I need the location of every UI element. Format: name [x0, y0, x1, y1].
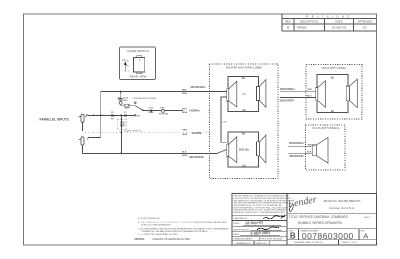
- lamp L1: [119, 101, 122, 104]
- svg-text:COMPRESSION DRIVER: COMPRESSION DRIVER: [132, 98, 157, 100]
- svg-text:SHEET: 1 OF 2: SHEET: 1 OF 2: [342, 242, 358, 244]
- svg-text:DATE: DATE: [234, 222, 240, 225]
- svg-text:8Ω: 8Ω: [331, 110, 334, 113]
- svg-text:LAMP: LAMP: [124, 106, 130, 109]
- svg-text:REV: REV: [285, 19, 291, 23]
- speaker SPK3: [316, 75, 358, 113]
- svg-text:Corona, CA U.S.A.: Corona, CA U.S.A.: [329, 206, 355, 210]
- svg-text:POLYSW: POLYSW: [159, 113, 168, 115]
- svg-text:PROD. MGR. RELEASE: PROD. MGR. RELEASE: [261, 238, 284, 241]
- switch SW1: [135, 102, 143, 116]
- connector ticks on tip bus: [112, 114, 126, 117]
- svg-text:WOOFER+: WOOFER+: [289, 141, 304, 145]
- wire woofer return into cabinet: [217, 150, 227, 154]
- svg-text:WOOFER-: WOOFER-: [280, 99, 295, 103]
- svg-text:TITLE: SERVICE DIAGRAM, COMBI: TITLE: SERVICE DIAGRAM, COMBINED: [289, 215, 349, 219]
- svg-text:RELEASE DATE: 02 SEP 03: RELEASE DATE: 02 SEP 03: [295, 241, 324, 244]
- svg-text:NOTES:: NOTES:: [135, 237, 146, 241]
- svg-text:PR983: PR983: [297, 26, 307, 30]
- svg-text:10: 10: [124, 122, 126, 124]
- horn switch body (rear view): [134, 56, 145, 74]
- svg-text:B: B: [290, 231, 296, 240]
- svg-text:WOOFER-: WOOFER-: [189, 155, 204, 159]
- svg-text:18GA: 18GA: [182, 111, 188, 114]
- svg-text:WHT: WHT: [308, 89, 313, 91]
- svg-text:8Ω: 8Ω: [242, 109, 245, 112]
- connector FC2 on horn line: [149, 109, 151, 112]
- svg-text:DATE: DATE: [336, 19, 343, 23]
- svg-text:BLK: BLK: [307, 96, 312, 98]
- input jack J2: [79, 137, 90, 145]
- svg-text:—: —: [138, 65, 140, 67]
- heavy divider band: [232, 226, 287, 227]
- svg-text:DB080.5014: DB080.5014: [256, 243, 268, 245]
- svg-text:WOOFER AND HORN COMBO: WOOFER AND HORN COMBO: [226, 66, 263, 70]
- svg-text:1. # = DENOTES 18GA. WIRE COLO: 1. # = DENOTES 18GA. WIRE COLORS.: [138, 233, 179, 236]
- svg-text:FOR 4 & 8 OHM OPERATION.: FOR 4 & 8 OHM OPERATION.: [141, 224, 171, 227]
- svg-text:WOOFER+: WOOFER+: [280, 87, 295, 91]
- svg-text:REAR VIEW: REAR VIEW: [130, 74, 147, 78]
- fender logo: [286, 194, 317, 210]
- revisions table: [282, 14, 377, 31]
- wire HORN+: [143, 109, 183, 111]
- svg-text:MUSICAL INSTRUMENTS: MUSICAL INSTRUMENTS: [324, 199, 361, 203]
- svg-text:8Ω: 8Ω: [331, 77, 334, 80]
- svg-text:WOOFER+: WOOFER+: [191, 85, 207, 89]
- svg-text:18GA: 18GA: [182, 133, 188, 136]
- svg-text:(SHT 1): (SHT 1): [364, 217, 371, 219]
- svg-text:2. ALL AMPLIFIERS USED WITH TH: 2. ALL AMPLIFIERS USED WITH THIS SPEAKER…: [138, 227, 229, 230]
- cabinet dashed box: woofer and horn combo: [210, 64, 279, 179]
- svg-text:LINK: LINK: [222, 121, 227, 123]
- svg-text:DRAWN/RELEASED: DRAWN/RELEASED: [234, 238, 253, 241]
- wire WOOFER-: [82, 123, 217, 154]
- svg-text:WOOFER-: WOOFER-: [290, 154, 305, 158]
- svg-text:15 & 25 WATT MODELS: 15 & 25 WATT MODELS: [312, 127, 340, 130]
- svg-text:02-SEP-03: 02-SEP-03: [332, 26, 347, 30]
- input jack J1: [79, 114, 88, 122]
- svg-text:R E V I S I O N S: R E V I S I O N S: [306, 14, 350, 18]
- horn switch detail box: [120, 47, 156, 80]
- notes block: [138, 217, 229, 236]
- polyswitch PS1: [161, 109, 164, 112]
- svg-text:RED: RED: [182, 90, 187, 92]
- svg-text:J.R.: J.R.: [362, 26, 367, 30]
- svg-text:1.6MH 8 OHMS 1%: 1.6MH 8 OHMS 1%: [124, 130, 142, 132]
- svg-text:4. IF NOT INSTALLED.: 4. IF NOT INSTALLED.: [138, 217, 161, 220]
- svg-text:REFER ALL QUESTIONS TO THE ENG: REFER ALL QUESTIONS TO THE ENGINEERING D…: [234, 211, 286, 214]
- svg-text:18GA: 18GA: [181, 92, 187, 95]
- svg-text:100V: 100V: [123, 100, 128, 102]
- svg-text:BLK: BLK: [182, 152, 187, 154]
- svg-text:DATE: DATE: [234, 233, 240, 236]
- svg-text:3. THE 1.6MH INDUCTOR IS USED: 3. THE 1.6MH INDUCTOR IS USED ONLY ON MO…: [138, 222, 227, 224]
- svg-text:8Ω: 8Ω: [242, 133, 245, 136]
- speaker SPK1: [227, 77, 266, 112]
- svg-text:RUMBLE SERIES SPEAKERS: RUMBLE SERIES SPEAKERS: [298, 221, 342, 225]
- svg-text:(UNLESS OTHERWISE NOTED): (UNLESS OTHERWISE NOTED): [152, 237, 190, 241]
- wire: jack tips bus: [88, 92, 135, 138]
- svg-text:HORN SWITCH: HORN SWITCH: [127, 49, 149, 53]
- svg-text:A: A: [363, 231, 368, 240]
- svg-text:0078603000: 0078603000: [302, 231, 354, 241]
- svg-text:BLK: BLK: [307, 152, 312, 154]
- capacitor C1 branch: [119, 92, 123, 102]
- svg-text:DESCRIPTION: DESCRIPTION: [300, 19, 318, 23]
- svg-text:WHT: WHT: [182, 109, 187, 111]
- svg-text:HORN-: HORN-: [192, 131, 202, 135]
- svg-text:DATABASE FILE: DATABASE FILE: [236, 242, 252, 245]
- svg-text:60/100 WATT MODEL: 60/100 WATT MODEL: [322, 67, 347, 70]
- title block frame: [232, 194, 377, 246]
- wire: vertical to woofer return: [120, 115, 122, 153]
- svg-text:SUB 16Ω: SUB 16Ω: [239, 149, 249, 152]
- svg-text:8Ω: 8Ω: [242, 77, 245, 80]
- svg-text:OPERATION. SEE AMPLIFIER SERVI: OPERATION. SEE AMPLIFIER SERVICE DIAGRAM…: [141, 230, 208, 233]
- svg-text:18GA: 18GA: [181, 154, 187, 157]
- svg-text:GRN: GRN: [182, 130, 187, 132]
- wire HORN- dotted: [82, 131, 209, 133]
- wire WOOFER+: [101, 91, 227, 93]
- node: jack junction dots: [93, 115, 94, 116]
- drawing border frame: [24, 14, 377, 245]
- svg-text:APPROVED BY: APPROVED BY: [234, 228, 250, 231]
- wire to switch: [121, 104, 134, 106]
- svg-text:HORN+: HORN+: [189, 108, 200, 112]
- svg-text:4Ω: 4Ω: [137, 115, 140, 118]
- lamp series resistor block: [124, 104, 129, 106]
- svg-text:8Ω: 8Ω: [242, 164, 245, 167]
- svg-text:PARALLEL INPUTS: PARALLEL INPUTS: [40, 117, 69, 121]
- svg-text:—: —: [138, 70, 140, 72]
- speaker SPK2: [227, 132, 266, 167]
- up arrow: [122, 59, 127, 72]
- wire link: [221, 97, 227, 142]
- wires into 60w cabinet: [280, 90, 316, 92]
- wires into 15/25 cabinet: [288, 145, 312, 147]
- svg-text:NO: NO: [126, 60, 129, 62]
- speaker SPK4: [312, 137, 328, 163]
- crossover dashed box: [118, 119, 127, 129]
- cabinet dashed box: 15/25 watt model: [306, 125, 346, 170]
- disclaimer text block: [234, 195, 292, 214]
- svg-text:CHECKED BY: CHECKED BY: [234, 218, 249, 220]
- svg-text:WHT: WHT: [308, 145, 313, 147]
- svg-text:APPROVED: APPROVED: [357, 19, 372, 23]
- cabinet dashed box: 60 watt model: [306, 65, 362, 120]
